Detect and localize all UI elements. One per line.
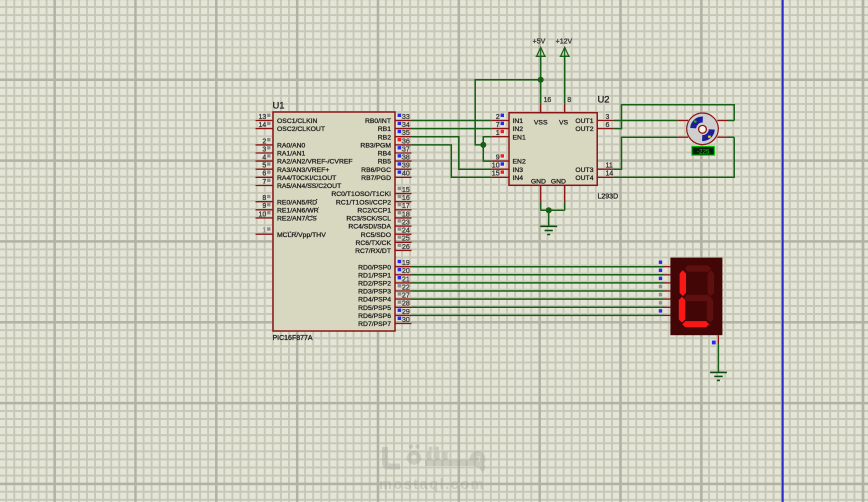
pin 38 (RB5) of U1	[378, 154, 412, 166]
U2 value label L293D	[598, 194, 619, 201]
pin 30 (RD7/PSP7) of U1	[358, 317, 411, 329]
7-seg pin row 6	[659, 301, 671, 307]
op-amp U1 body: microcontroller PIC16F877A	[273, 112, 395, 331]
pin 29 (RD6/PSP6) of U1	[358, 309, 411, 321]
svg-text:RB4: RB4	[378, 151, 391, 158]
pin 3 (RA1/AN1) of U1	[256, 146, 306, 158]
pin 22 (RD3/PSP3) of U1	[358, 284, 411, 296]
svg-text:6: 6	[606, 122, 610, 129]
svg-text:EN2: EN2	[513, 159, 526, 166]
pin 1 (EN1) of U2	[492, 130, 526, 142]
svg-text:9: 9	[496, 155, 500, 162]
pin 36 (RB3/PGM) of U1	[360, 138, 411, 150]
wire OUT3 to motor lower-left terminal	[614, 137, 688, 169]
svg-text:RD5/PSP5: RD5/PSP5	[358, 305, 391, 312]
svg-text:EN1: EN1	[513, 134, 526, 141]
svg-text:RE0/AN5/RD: RE0/AN5/RD	[277, 199, 317, 206]
svg-text:RB0/INT: RB0/INT	[365, 118, 391, 125]
pin 9 (RE1/AN6/WR) of U1	[256, 203, 319, 215]
svg-text:U2: U2	[598, 94, 610, 105]
wire RB1 to IN2	[412, 128, 492, 130]
svg-text:27: 27	[402, 293, 410, 300]
pin 18 (RC3/SCK/SCL) of U1	[346, 211, 411, 223]
svg-text:20: 20	[402, 268, 410, 275]
wire RD port to 7-seg	[412, 298, 665, 300]
svg-text:14: 14	[259, 122, 267, 129]
pin 15 (IN4) of U2	[492, 170, 524, 182]
pin 17 (RC2/CCP1) of U1	[357, 203, 411, 215]
pin 14 (OSC2/CLKOUT) of U1	[256, 122, 325, 134]
7-seg segment E	[679, 297, 685, 323]
svg-text:RE2/AN7/CS: RE2/AN7/CS	[277, 216, 317, 223]
pin 4 (RA2/AN2/VREF-/CVREF) of U1	[256, 154, 353, 166]
svg-text:21: 21	[402, 276, 410, 283]
svg-text:+12V: +12V	[556, 39, 573, 46]
svg-text:38: 38	[402, 155, 410, 162]
svg-text:RD2/PSP2: RD2/PSP2	[358, 281, 391, 288]
svg-text:RA4/T0CKI/C1OUT: RA4/T0CKI/C1OUT	[277, 175, 336, 182]
svg-text:25: 25	[402, 236, 410, 243]
pin 11 (OUT3) of U2	[575, 163, 614, 174]
wire RD port to 7-seg	[412, 282, 665, 284]
GND pin of U2 (right)	[551, 178, 566, 202]
svg-text:RA5/AN4/SS/C2OUT: RA5/AN4/SS/C2OUT	[277, 183, 341, 190]
svg-text:IN1: IN1	[513, 118, 524, 125]
svg-text:10: 10	[259, 211, 267, 218]
pin 28 (RD5/PSP5) of U1	[358, 300, 411, 312]
svg-text:RD4/PSP4: RD4/PSP4	[358, 297, 391, 304]
svg-text:15: 15	[492, 171, 500, 178]
svg-text:15: 15	[402, 187, 410, 194]
7-seg pin row 2	[659, 269, 671, 275]
pin 34 (RB1) of U1	[378, 122, 412, 134]
svg-text:29: 29	[402, 309, 410, 316]
pin 37 (RB4) of U1	[378, 146, 412, 158]
motor speed readout -225	[692, 147, 714, 156]
wire RB3 to IN4	[412, 145, 492, 177]
svg-text:RB6/PGC: RB6/PGC	[361, 167, 391, 174]
7-segment display body	[670, 258, 722, 336]
ground symbol below 7-seg	[710, 372, 727, 380]
svg-text:IN3: IN3	[513, 167, 524, 174]
svg-text:RC7/RX/DT: RC7/RX/DT	[355, 248, 391, 255]
7-seg pin row 1	[659, 261, 671, 267]
svg-text:RC5/SDO: RC5/SDO	[361, 232, 391, 239]
svg-text:RA2/AN2/VREF-/CVREF: RA2/AN2/VREF-/CVREF	[277, 159, 353, 166]
wire +5V to VSS pin 16	[540, 56, 542, 104]
svg-text:RB3/PGM: RB3/PGM	[360, 143, 391, 150]
7-seg segment C	[707, 297, 713, 323]
junction on +5V wire	[538, 77, 544, 83]
svg-text:RC2/CCP1: RC2/CCP1	[357, 207, 391, 214]
svg-text:-225: -225	[697, 148, 710, 155]
7-seg pin row 5	[659, 293, 671, 299]
svg-text:24: 24	[402, 228, 410, 235]
svg-text:RB5: RB5	[378, 159, 391, 166]
wire RB2 to IN3	[412, 137, 492, 170]
svg-text:1: 1	[262, 228, 266, 235]
svg-text:GND: GND	[551, 178, 566, 185]
svg-text:11: 11	[606, 163, 613, 170]
svg-text:34: 34	[402, 122, 410, 129]
U1 value label PIC16F877A	[273, 335, 313, 342]
pin 15 (RC0/T1OSO/T1CKI) of U1	[331, 187, 411, 199]
svg-text:10: 10	[492, 163, 500, 170]
svg-text:16: 16	[402, 195, 410, 202]
pin 3 (OUT1) of U2	[575, 114, 614, 125]
pin 21 (RD2/PSP2) of U1	[358, 276, 411, 288]
svg-text:1: 1	[496, 130, 500, 137]
wire GND pins to ground	[541, 203, 565, 227]
wire OUT2 to motor upper-right terminal	[614, 105, 734, 129]
motor driver U2 body: L293D	[509, 113, 597, 186]
svg-text:OUT4: OUT4	[575, 175, 593, 182]
svg-text:mostaql.com: mostaql.com	[379, 477, 485, 493]
pin 19 (RD0/PSP0) of U1	[358, 260, 411, 272]
svg-text:OSC2/CLKOUT: OSC2/CLKOUT	[277, 126, 325, 133]
wire RD port to 7-seg	[412, 306, 665, 308]
svg-text:7: 7	[496, 122, 500, 129]
svg-text:RC4/SDI/SDA: RC4/SDI/SDA	[348, 224, 391, 231]
wire RD port to 7-seg	[412, 314, 665, 316]
pin 5 (RA3/AN3/VREF+) of U1	[256, 162, 330, 174]
svg-text:23: 23	[402, 220, 410, 227]
pin 27 (RD4/PSP4) of U1	[358, 292, 411, 304]
svg-text:+5V: +5V	[533, 39, 546, 46]
svg-text:2: 2	[496, 114, 500, 121]
pin 6 (OUT2) of U2	[575, 122, 614, 133]
power symbol +12V	[556, 39, 573, 57]
pin 16 (VSS) of U2	[534, 97, 551, 126]
pin 2 (IN1) of U2	[492, 114, 524, 126]
svg-text:RA0/AN0: RA0/AN0	[277, 143, 306, 150]
pin 7 (IN2) of U2	[492, 122, 524, 134]
svg-text:RC0/T1OSO/T1CKI: RC0/T1OSO/T1CKI	[331, 191, 391, 198]
7-seg segment A	[685, 265, 712, 271]
svg-text:RC3/SCK/SCL: RC3/SCK/SCL	[346, 216, 391, 223]
wire OUT1 to motor left terminal	[614, 120, 688, 122]
pin 1 (MCLR/Vpp/THV) of U1	[256, 227, 327, 239]
svg-text:14: 14	[606, 171, 614, 178]
ground symbol below U2	[540, 226, 557, 234]
svg-text:4: 4	[262, 155, 266, 162]
pin 24 (RC5/SDO) of U1	[361, 227, 412, 239]
pin 35 (RB2) of U1	[378, 130, 412, 142]
svg-text:MCLR/Vpp/THV: MCLR/Vpp/THV	[277, 232, 326, 239]
pin 39 (RB6/PGC) of U1	[361, 162, 411, 174]
svg-text:2: 2	[262, 138, 266, 145]
svg-text:40: 40	[402, 171, 410, 178]
7-seg segment D	[682, 321, 709, 327]
U2 reference designator	[598, 94, 610, 105]
7-seg pin row 7	[659, 309, 671, 315]
7-seg pin row 3	[659, 277, 671, 283]
svg-text:19: 19	[402, 260, 410, 267]
svg-text:RE1/AN6/WR: RE1/AN6/WR	[277, 207, 319, 214]
svg-text:3: 3	[606, 114, 610, 121]
svg-text:RB1: RB1	[378, 126, 391, 133]
svg-text:36: 36	[402, 138, 410, 145]
svg-text:GND: GND	[531, 178, 546, 185]
svg-text:16: 16	[544, 97, 552, 104]
pin 16 (RC1/T1OSI/CCP2) of U1	[336, 195, 412, 207]
svg-text:RD3/PSP3: RD3/PSP3	[358, 289, 391, 296]
pin 2 (RA0/AN0) of U1	[256, 138, 306, 150]
svg-text:IN2: IN2	[513, 126, 524, 133]
wire RB0 to IN1	[412, 120, 492, 122]
svg-text:VSS: VSS	[534, 119, 548, 126]
pin 13 (OSC1/CLKIN) of U1	[256, 114, 318, 126]
svg-text:RA1/AN1: RA1/AN1	[277, 151, 306, 158]
svg-text:RC6/TX/CK: RC6/TX/CK	[355, 240, 391, 247]
pin 8 (VS) of U2	[559, 97, 571, 126]
pin 33 (RB0/INT) of U1	[365, 114, 412, 126]
wire +5V branch to EN1/EN2	[475, 80, 541, 145]
GND pin of U2 (left)	[531, 178, 546, 202]
svg-text:9: 9	[262, 203, 266, 210]
svg-text:RD7/PSP7: RD7/PSP7	[358, 321, 391, 328]
svg-text:26: 26	[402, 244, 410, 251]
pin 20 (RD1/PSP1) of U1	[358, 268, 411, 280]
svg-text:OUT2: OUT2	[575, 126, 593, 133]
pin 8 (RE0/AN5/RD) of U1	[256, 195, 318, 207]
pin 10 (IN3) of U2	[492, 162, 524, 174]
svg-text:PIC16F877A: PIC16F877A	[273, 335, 313, 342]
7-seg common pin to ground	[712, 335, 719, 372]
svg-text:VS: VS	[559, 119, 569, 126]
wire RD port to 7-seg	[412, 290, 665, 292]
pin 26 (RC7/RX/DT) of U1	[355, 244, 411, 256]
power symbol +5V	[533, 39, 546, 57]
svg-text:RD1/PSP1: RD1/PSP1	[358, 272, 391, 279]
pin 40 (RB7/PGD) of U1	[361, 170, 411, 182]
wire +12V to VS pin 8	[564, 56, 566, 104]
watermark mostaql.com	[379, 444, 485, 493]
svg-text:17: 17	[402, 203, 410, 210]
motor M1 (stepper motor symbol)	[687, 113, 719, 145]
junction on EN rail	[480, 142, 486, 148]
svg-text:18: 18	[402, 211, 410, 218]
svg-text:39: 39	[402, 163, 410, 170]
7-seg segment B	[708, 270, 714, 296]
svg-text:22: 22	[402, 284, 410, 291]
svg-text:6: 6	[262, 171, 266, 178]
svg-text:33: 33	[402, 114, 410, 121]
svg-text:OSC1/CLKIN: OSC1/CLKIN	[277, 118, 318, 125]
pin 7 (RA5/AN4/SS/C2OUT) of U1	[256, 179, 342, 191]
junction on GND net	[546, 207, 552, 213]
svg-text:OUT1: OUT1	[575, 118, 593, 125]
svg-text:U1: U1	[273, 100, 285, 111]
svg-text:IN4: IN4	[513, 175, 524, 182]
svg-text:RD0/PSP0: RD0/PSP0	[358, 264, 391, 271]
7-seg segment F	[680, 270, 686, 296]
svg-text:13: 13	[259, 114, 267, 121]
svg-text:L293D: L293D	[598, 194, 619, 201]
schematic sheet border (blue)	[782, 0, 784, 502]
svg-text:5: 5	[262, 163, 266, 170]
svg-text:7: 7	[262, 179, 266, 186]
pin 25 (RC6/TX/CK) of U1	[355, 235, 411, 247]
svg-text:35: 35	[402, 130, 410, 137]
svg-text:RC1/T1OSI/CCP2: RC1/T1OSI/CCP2	[336, 199, 391, 206]
svg-text:8: 8	[567, 97, 571, 104]
wire RD port to 7-seg	[412, 266, 665, 268]
wire EN1-EN2 rail	[483, 137, 491, 161]
pin 6 (RA4/T0CKI/C1OUT) of U1	[256, 170, 337, 182]
pin 23 (RC4/SDI/SDA) of U1	[348, 219, 411, 231]
svg-text:RB2: RB2	[378, 134, 391, 141]
svg-text:37: 37	[402, 146, 410, 153]
svg-text:30: 30	[402, 317, 410, 324]
svg-text:RD6/PSP6: RD6/PSP6	[358, 313, 391, 320]
7-seg segment G	[684, 295, 711, 301]
svg-text:RB7/PGD: RB7/PGD	[361, 175, 391, 182]
svg-text:3: 3	[262, 146, 266, 153]
pin 9 (EN2) of U2	[492, 154, 526, 166]
svg-text:OUT3: OUT3	[575, 167, 593, 174]
U1 reference designator	[273, 100, 285, 111]
wire OUT4 to motor lower-right terminal	[614, 137, 734, 177]
svg-text:28: 28	[402, 301, 410, 308]
svg-text:8: 8	[262, 195, 266, 202]
7-seg pin row 4	[659, 285, 671, 291]
pin 10 (RE2/AN7/CS) of U1	[256, 211, 318, 223]
wire RD port to 7-seg	[412, 274, 665, 276]
pin 14 (OUT4) of U2	[575, 171, 614, 182]
svg-text:RA3/AN3/VREF+: RA3/AN3/VREF+	[277, 167, 329, 174]
